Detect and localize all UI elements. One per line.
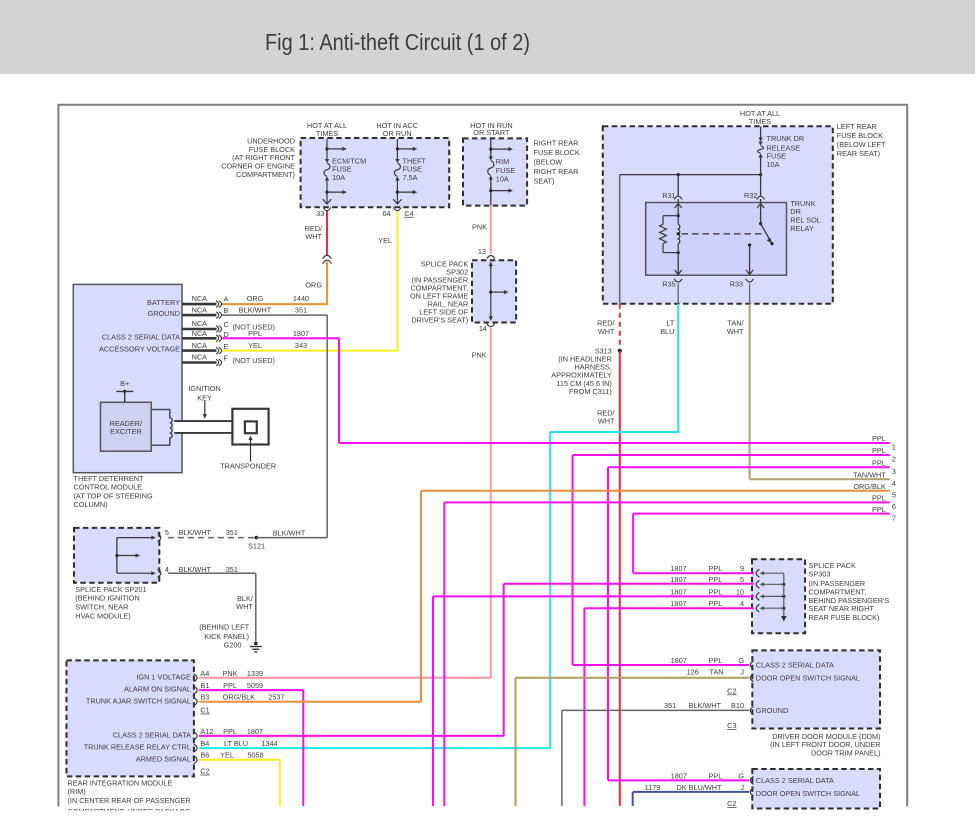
svg-text:(BELOW: (BELOW — [534, 157, 563, 166]
svg-text:1339: 1339 — [247, 669, 263, 678]
svg-text:TAN/WHT: TAN/WHT — [853, 470, 886, 479]
svg-text:D: D — [224, 330, 229, 339]
svg-text:IGNITION: IGNITION — [188, 384, 220, 393]
svg-text:LEFT REAR: LEFT REAR — [837, 122, 877, 131]
svg-text:PPL: PPL — [709, 599, 723, 608]
svg-text:(NOT USED): (NOT USED) — [233, 356, 275, 365]
svg-text:IGN 1 VOLTAGE: IGN 1 VOLTAGE — [136, 672, 191, 681]
svg-text:5: 5 — [165, 528, 169, 537]
svg-text:REAR SEAT): REAR SEAT) — [837, 149, 880, 158]
svg-text:BLK/WHT: BLK/WHT — [689, 701, 722, 710]
svg-text:R35: R35 — [662, 279, 675, 288]
svg-text:KEY: KEY — [197, 393, 212, 402]
svg-text:1807: 1807 — [670, 599, 686, 608]
svg-text:SEAT): SEAT) — [534, 176, 555, 185]
svg-text:EXCITER: EXCITER — [110, 427, 142, 436]
svg-text:SWITCH, NEAR: SWITCH, NEAR — [75, 603, 128, 612]
svg-text:COLUMN): COLUMN) — [74, 500, 108, 509]
svg-text:A: A — [224, 295, 229, 304]
svg-text:SP303: SP303 — [809, 570, 831, 579]
svg-text:TAN: TAN — [709, 668, 723, 677]
svg-text:5: 5 — [740, 575, 744, 584]
svg-text:PPL: PPL — [709, 575, 723, 584]
svg-text:CLASS 2 SERIAL DATA: CLASS 2 SERIAL DATA — [756, 776, 834, 785]
svg-text:OR START: OR START — [473, 128, 510, 137]
svg-text:TRANSPONDER: TRANSPONDER — [220, 462, 276, 471]
svg-text:CLASS 2 SERIAL DATA: CLASS 2 SERIAL DATA — [756, 661, 834, 670]
svg-text:GROUND: GROUND — [148, 309, 180, 318]
svg-text:PNK: PNK — [472, 222, 487, 231]
svg-text:NCA: NCA — [192, 294, 208, 303]
svg-text:G: G — [738, 771, 744, 780]
svg-text:2537: 2537 — [268, 693, 284, 702]
svg-text:HVAC MODULE): HVAC MODULE) — [75, 612, 130, 621]
svg-text:C: C — [224, 320, 229, 329]
svg-text:4: 4 — [892, 479, 896, 488]
svg-text:BLK/WHT: BLK/WHT — [239, 305, 272, 314]
svg-text:7.5A: 7.5A — [403, 173, 418, 182]
svg-text:1807: 1807 — [670, 587, 686, 596]
svg-text:PPL: PPL — [709, 771, 723, 780]
svg-text:C2: C2 — [200, 767, 209, 776]
svg-text:10A: 10A — [332, 173, 345, 182]
svg-text:BLK/WHT: BLK/WHT — [179, 565, 212, 574]
svg-text:4: 4 — [740, 599, 744, 608]
svg-text:2: 2 — [892, 455, 896, 464]
svg-text:G200: G200 — [224, 640, 242, 649]
svg-text:DOOR TRIM PANEL): DOOR TRIM PANEL) — [811, 749, 880, 758]
svg-text:1344: 1344 — [261, 739, 277, 748]
svg-text:GROUND: GROUND — [756, 706, 788, 715]
svg-text:351: 351 — [226, 528, 238, 537]
svg-text:PNK: PNK — [222, 669, 237, 678]
svg-text:5059: 5059 — [247, 681, 263, 690]
svg-text:PPL: PPL — [872, 505, 886, 514]
svg-text:(BELOW LEFT: (BELOW LEFT — [837, 140, 886, 149]
svg-text:(BEHIND LEFT: (BEHIND LEFT — [199, 623, 249, 632]
svg-text:YEL: YEL — [378, 236, 392, 245]
svg-text:10A: 10A — [767, 160, 780, 169]
svg-text:WHT: WHT — [727, 327, 744, 336]
svg-text:R33: R33 — [730, 279, 743, 288]
svg-text:DOOR OPEN SWITCH SIGNAL: DOOR OPEN SWITCH SIGNAL — [756, 789, 860, 798]
svg-text:ORG/BLK: ORG/BLK — [853, 482, 886, 491]
svg-text:B3: B3 — [200, 693, 209, 702]
svg-text:ALARM ON SIGNAL: ALARM ON SIGNAL — [124, 685, 191, 694]
svg-text:3: 3 — [892, 467, 896, 476]
svg-text:PPL: PPL — [223, 727, 237, 736]
svg-text:RIGHT REAR: RIGHT REAR — [534, 138, 579, 147]
svg-text:(AT TOP OF STEERING: (AT TOP OF STEERING — [74, 491, 154, 500]
svg-text:1807: 1807 — [671, 656, 687, 665]
svg-text:R32: R32 — [744, 191, 757, 200]
svg-text:10A: 10A — [496, 175, 509, 184]
svg-text:CLASS 2 SERIAL DATA: CLASS 2 SERIAL DATA — [113, 731, 191, 740]
svg-text:WHT: WHT — [305, 232, 322, 241]
svg-text:1807: 1807 — [293, 329, 309, 338]
svg-text:BATTERY: BATTERY — [147, 298, 180, 307]
svg-text:C2: C2 — [727, 686, 736, 695]
svg-text:NCA: NCA — [192, 353, 208, 362]
svg-text:TIMES: TIMES — [316, 129, 338, 138]
svg-text:F: F — [224, 353, 229, 362]
svg-text:CLASS 2 SERIAL DATA: CLASS 2 SERIAL DATA — [102, 332, 180, 341]
svg-text:351: 351 — [664, 701, 676, 710]
svg-text:1807: 1807 — [670, 564, 686, 573]
svg-text:REAR FUSE BLOCK): REAR FUSE BLOCK) — [809, 613, 880, 622]
svg-text:PPL: PPL — [872, 446, 886, 455]
svg-text:9: 9 — [740, 564, 744, 573]
svg-text:DOOR OPEN SWITCH SIGNAL: DOOR OPEN SWITCH SIGNAL — [756, 674, 860, 683]
svg-text:PPL: PPL — [872, 494, 886, 503]
svg-text:1440: 1440 — [293, 294, 309, 303]
svg-text:5: 5 — [892, 490, 896, 499]
svg-text:BLK/WHT: BLK/WHT — [179, 528, 212, 537]
svg-text:RIM: RIM — [496, 157, 509, 166]
svg-text:C4: C4 — [404, 209, 413, 218]
svg-text:B: B — [224, 306, 229, 315]
svg-text:PPL: PPL — [709, 587, 723, 596]
svg-text:5058: 5058 — [247, 751, 263, 760]
svg-text:4: 4 — [165, 565, 169, 574]
svg-text:33: 33 — [316, 209, 324, 218]
svg-text:BLU: BLU — [660, 327, 674, 336]
svg-text:351: 351 — [226, 565, 238, 574]
svg-text:THEFT DETERRENT: THEFT DETERRENT — [74, 474, 145, 483]
svg-text:PPL: PPL — [709, 564, 723, 573]
svg-text:RIGHT REAR: RIGHT REAR — [534, 167, 579, 176]
svg-text:FUSE BLOCK: FUSE BLOCK — [837, 131, 883, 140]
svg-text:COMPARTMENT): COMPARTMENT) — [236, 170, 295, 179]
svg-text:COMPARTMENT, UNDER PACKAGE: COMPARTMENT, UNDER PACKAGE — [68, 807, 191, 816]
svg-text:YEL: YEL — [220, 751, 234, 760]
svg-text:LT BLU: LT BLU — [224, 739, 248, 748]
svg-text:PPL: PPL — [872, 434, 886, 443]
svg-text:B4: B4 — [200, 739, 209, 748]
svg-text:R31: R31 — [662, 191, 675, 200]
svg-text:DRIVER'S SEAT): DRIVER'S SEAT) — [411, 316, 468, 325]
svg-text:ARMED SIGNAL: ARMED SIGNAL — [136, 754, 191, 763]
svg-text:WHT: WHT — [598, 327, 615, 336]
svg-text:A12: A12 — [200, 727, 213, 736]
svg-text:TRUNK DR: TRUNK DR — [767, 134, 805, 143]
svg-text:WHT: WHT — [598, 417, 615, 426]
svg-text:1179: 1179 — [645, 783, 661, 792]
svg-text:DK BLU/WHT: DK BLU/WHT — [677, 783, 723, 792]
svg-text:10: 10 — [736, 587, 744, 596]
svg-text:PPL: PPL — [223, 681, 237, 690]
svg-text:J: J — [740, 668, 744, 677]
svg-text:NCA: NCA — [192, 329, 208, 338]
svg-text:OR RUN: OR RUN — [383, 129, 412, 138]
svg-text:B+: B+ — [120, 379, 129, 388]
svg-text:64: 64 — [382, 209, 390, 218]
svg-text:PPL: PPL — [872, 458, 886, 467]
svg-text:B10: B10 — [731, 701, 744, 710]
svg-text:ACCESSORY VOLTAGE: ACCESSORY VOLTAGE — [99, 345, 180, 354]
svg-text:ORG: ORG — [305, 281, 322, 290]
svg-text:G: G — [738, 656, 744, 665]
svg-text:B6: B6 — [200, 751, 209, 760]
svg-text:NCA: NCA — [192, 319, 208, 328]
svg-text:126: 126 — [687, 668, 699, 677]
svg-text:B1: B1 — [200, 681, 209, 690]
svg-text:(IN CENTER REAR OF PASSENGER: (IN CENTER REAR OF PASSENGER — [68, 796, 191, 805]
svg-text:343: 343 — [295, 341, 307, 350]
svg-text:E: E — [224, 342, 229, 351]
svg-text:RELAY: RELAY — [790, 224, 814, 233]
svg-text:TRUNK RELEASE RELAY CTRL: TRUNK RELEASE RELAY CTRL — [84, 743, 191, 752]
svg-text:TRUNK AJAR SWITCH SIGNAL: TRUNK AJAR SWITCH SIGNAL — [86, 696, 191, 705]
svg-text:1807: 1807 — [670, 575, 686, 584]
svg-text:TIMES: TIMES — [749, 117, 771, 126]
svg-text:FUSE BLOCK: FUSE BLOCK — [534, 148, 580, 157]
svg-text:351: 351 — [295, 305, 307, 314]
svg-text:FUSE: FUSE — [496, 166, 516, 175]
svg-text:PNK: PNK — [472, 351, 487, 360]
svg-text:NCA: NCA — [192, 305, 208, 314]
svg-text:1: 1 — [892, 443, 896, 452]
svg-text:(RIM): (RIM) — [68, 787, 86, 796]
svg-text:ORG: ORG — [247, 294, 264, 303]
svg-text:1807: 1807 — [671, 771, 687, 780]
svg-text:C1: C1 — [200, 706, 209, 715]
svg-text:S121: S121 — [248, 542, 265, 551]
svg-text:14: 14 — [479, 324, 487, 333]
svg-text:BLK/WHT: BLK/WHT — [273, 529, 306, 538]
svg-text:13: 13 — [478, 247, 486, 256]
svg-text:(BEHIND IGNITION: (BEHIND IGNITION — [75, 594, 139, 603]
svg-text:ORG/BLK: ORG/BLK — [223, 693, 256, 702]
svg-text:J: J — [740, 783, 744, 792]
svg-text:PPL: PPL — [709, 656, 723, 665]
svg-text:YEL: YEL — [248, 341, 262, 350]
svg-text:NCA: NCA — [192, 341, 208, 350]
svg-text:6: 6 — [892, 502, 896, 511]
svg-text:CONTROL MODULE: CONTROL MODULE — [74, 483, 143, 492]
svg-text:7: 7 — [892, 513, 896, 522]
svg-text:C3: C3 — [727, 721, 736, 730]
svg-text:FROM C311): FROM C311) — [569, 387, 612, 396]
svg-text:A4: A4 — [200, 669, 209, 678]
svg-text:PPL: PPL — [248, 329, 262, 338]
svg-text:C2: C2 — [727, 799, 736, 808]
svg-text:WHT: WHT — [236, 602, 253, 611]
svg-text:1807: 1807 — [247, 727, 263, 736]
